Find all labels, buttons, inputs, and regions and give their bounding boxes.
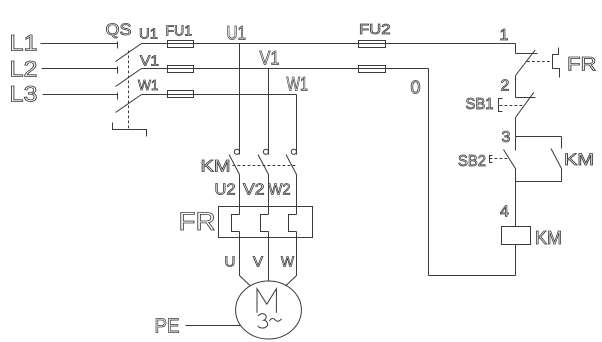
svg-text:0: 0 (411, 78, 421, 98)
node 2 label (501, 78, 510, 95)
svg-text:FU2: FU2 (359, 21, 391, 38)
QS pole 3 blade (116, 95, 142, 113)
wire PE to motor (186, 325, 241, 327)
svg-text:KM: KM (564, 151, 594, 169)
fuse FU1 label (166, 23, 193, 40)
svg-text:U2: U2 (215, 182, 236, 199)
svg-text:W: W (281, 254, 295, 271)
wire row3 FU1 to W1 corner (194, 94, 297, 96)
start button SB2 label (458, 153, 486, 170)
SB2 pushbutton actuator (490, 156, 493, 163)
svg-text:U1: U1 (139, 26, 158, 43)
KM auxiliary contact lower wire (561, 170, 563, 182)
wire pole2 KM to FR (268, 175, 270, 215)
QS pole 3 fixed contact (117, 93, 119, 100)
FR heater element 3 (289, 215, 297, 232)
FR contact label (567, 55, 597, 76)
node label V1 (260, 49, 280, 70)
motor M body (236, 281, 302, 339)
svg-text:FR: FR (567, 55, 597, 76)
node label W1 (287, 75, 309, 96)
SB1 actuator dashed link (500, 105, 525, 107)
svg-text:W1: W1 (138, 77, 159, 94)
QS linkage dashed (128, 51, 130, 130)
KM auxiliary label (564, 151, 594, 169)
node U1 at QS (139, 26, 158, 43)
svg-text:KM: KM (201, 157, 231, 176)
KM main pole3 fixed contact hook (291, 149, 296, 154)
svg-text:U: U (225, 254, 236, 271)
wire V1 vertical drop (268, 69, 270, 155)
svg-text:KM: KM (535, 228, 562, 248)
motor terminal W (281, 254, 295, 271)
svg-text:QS: QS (106, 20, 132, 39)
contactor coil KM (502, 227, 531, 245)
node label U1 (227, 24, 247, 45)
svg-text:L2: L2 (10, 57, 38, 82)
svg-text:U1: U1 (227, 24, 247, 45)
SB1 pushbutton actuator (499, 99, 503, 112)
wire FR to motor W (286, 232, 297, 287)
protective earth PE label (155, 316, 180, 338)
svg-text:FU1: FU1 (166, 23, 193, 40)
KM main pole2 fixed contact hook (263, 149, 268, 154)
phase terminal L2 (10, 57, 38, 82)
wire SB2 to coil (515, 170, 517, 227)
KM main pole3 blade (286, 155, 297, 175)
svg-text:SB2: SB2 (458, 153, 486, 170)
QS pole 1 fixed contact (117, 42, 119, 49)
SB2 NO contact upper wire (515, 137, 517, 151)
svg-text:2: 2 (501, 78, 510, 95)
SB2 actuator dashed link (490, 158, 510, 160)
contactor KM main label (201, 157, 231, 176)
FR heater box (219, 207, 313, 238)
fuse FU2 label (359, 21, 391, 38)
SB1 NC contact blade (516, 92, 534, 117)
svg-text:V1: V1 (260, 49, 280, 70)
wire L1 to QS (41, 43, 118, 45)
contactor coil KM label (535, 228, 562, 248)
node W1 at QS (138, 77, 159, 94)
node V1 at QS (140, 53, 159, 70)
svg-text:L3: L3 (10, 82, 38, 107)
wire SB1 to node3 (515, 118, 517, 137)
node label W2 (269, 182, 291, 199)
wire L2 to QS (42, 68, 118, 70)
node 3 label (502, 129, 511, 146)
svg-text:V2: V2 (243, 182, 265, 199)
wire pole3 KM to FR (296, 175, 298, 215)
wire row1 FU1 to node1 corner (194, 43, 516, 45)
KM main pole1 blade (229, 155, 240, 175)
node label U2 (215, 182, 236, 199)
KM auxiliary contact blade (551, 149, 562, 170)
svg-text:V: V (253, 254, 263, 271)
node 4 label (500, 204, 509, 221)
KM main pole2 blade (258, 155, 269, 175)
svg-text:4: 4 (500, 204, 509, 221)
KM main pole1 fixed contact hook (234, 149, 239, 154)
thermal overload relay FR label (179, 208, 216, 236)
fuse FU2 element row2 (359, 66, 386, 73)
QS pole 1 blade (116, 44, 142, 62)
motor M letter (257, 289, 276, 313)
KM main linkage dashed (233, 165, 297, 167)
wire coil to bottom return (515, 245, 517, 276)
wire control bottom return (429, 275, 516, 277)
FR actuator dashed link (527, 61, 553, 63)
svg-text:FR: FR (179, 208, 216, 236)
svg-text:1: 1 (500, 27, 509, 44)
fuse FU1 element row1 (168, 41, 194, 48)
FR NC contact bar (516, 53, 538, 55)
wire pole1 KM to FR (239, 175, 241, 215)
wire FR contact to SB1 (515, 76, 517, 98)
QS pole 2 fixed contact (117, 67, 119, 74)
wire FR to motor U (240, 232, 251, 287)
FR heater element 2 (261, 215, 269, 232)
phase terminal L3 (10, 82, 38, 107)
wire QS to FU1 row2 (142, 68, 168, 70)
fuse FU1 element row2 (168, 66, 194, 73)
svg-text:W1: W1 (287, 75, 309, 96)
motor terminal U (225, 254, 236, 271)
FR actuator symbol (553, 48, 560, 78)
fuse FU1 element row3 (168, 91, 194, 98)
disconnect switch QS label (106, 20, 132, 39)
SB2 NO contact blade (504, 150, 517, 170)
QS pole 2 blade (116, 69, 142, 87)
phase terminal L1 (10, 31, 38, 56)
SB1 NC contact bar (516, 97, 536, 99)
svg-text:W2: W2 (269, 182, 291, 199)
svg-text:V1: V1 (140, 53, 159, 70)
svg-text:PE: PE (155, 316, 180, 338)
stop button SB1 label (466, 96, 494, 113)
svg-text:SB1: SB1 (466, 96, 494, 113)
fuse FU2 element row1 (359, 41, 386, 48)
FR heater element 1 (232, 215, 240, 232)
wire FR to motor V (268, 232, 270, 282)
wire row2 FU1 to 0-line corner (194, 68, 429, 70)
wire aux branch return (516, 181, 562, 183)
QS operating handle bracket (113, 123, 147, 137)
motor 3~ label (258, 314, 282, 328)
wire U1 vertical drop (239, 44, 241, 155)
wire QS to FU1 row3 (142, 94, 168, 96)
motor terminal V (253, 254, 263, 271)
node label V2 (243, 182, 265, 199)
FR NC contact blade (516, 50, 536, 76)
wire L3 to QS (43, 94, 118, 96)
node 0 label (411, 78, 421, 98)
wire QS to FU1 row1 (142, 43, 168, 45)
wire node1 corner down (515, 44, 517, 54)
node 1 label (500, 27, 509, 44)
KM auxiliary contact upper wire (561, 137, 563, 149)
svg-text:L1: L1 (10, 31, 38, 56)
wire node3 branch (516, 136, 562, 138)
wire 0-line vertical (428, 69, 430, 276)
svg-text:3: 3 (502, 129, 511, 146)
wire W1 vertical drop (296, 95, 298, 155)
